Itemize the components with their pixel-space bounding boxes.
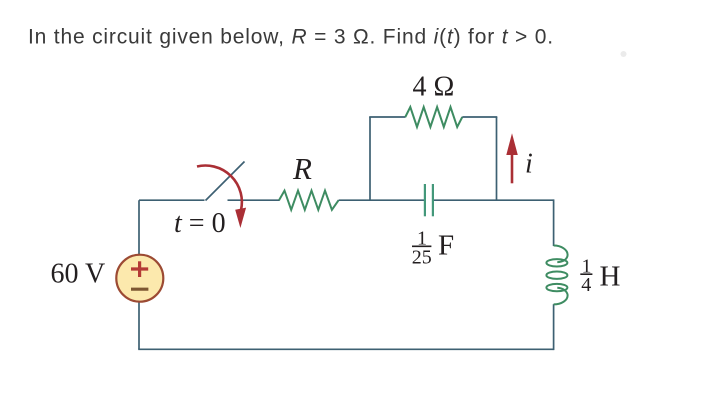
wire right vertical lower (below inductor) xyxy=(553,304,555,350)
voltage source V1 circle xyxy=(116,255,163,302)
resistor 4 ohm zigzag xyxy=(405,107,462,127)
label 1/4 H xyxy=(580,255,620,296)
minus sign xyxy=(131,288,148,291)
svg-text:F: F xyxy=(438,230,454,262)
faint smudge artifact xyxy=(621,51,627,57)
svg-text:25: 25 xyxy=(412,247,432,269)
svg-text:i: i xyxy=(525,148,533,179)
resistor R zigzag xyxy=(279,191,339,210)
switch blade xyxy=(206,162,245,201)
plus sign xyxy=(131,261,148,277)
svg-text:4 Ω: 4 Ω xyxy=(413,72,455,103)
current arrow i (red) xyxy=(506,133,518,183)
wire left vertical xyxy=(138,200,140,349)
capacitor left plate xyxy=(424,184,426,216)
wire bottom xyxy=(138,348,553,350)
wire top rail left of switch xyxy=(139,199,205,201)
inductor L coil xyxy=(546,246,567,305)
wire top branch right segment xyxy=(462,116,497,118)
svg-text:R: R xyxy=(292,151,312,186)
svg-text:In the circuit given below, R: In the circuit given below, R = 3 Ω. Fin… xyxy=(28,25,554,48)
label 1/25 F xyxy=(412,228,454,269)
wire top branch left segment xyxy=(369,116,405,118)
svg-text:4: 4 xyxy=(581,274,591,296)
title text xyxy=(28,25,554,48)
svg-text:60 V: 60 V xyxy=(51,259,106,290)
wire 4-ohm branch right vertical xyxy=(496,117,498,201)
wire right vertical upper (above inductor) xyxy=(553,199,555,246)
wire from capacitor to right edge xyxy=(434,199,554,201)
svg-text:H: H xyxy=(600,261,621,293)
wire from R to capacitor xyxy=(339,199,424,201)
switch arrow head (red) xyxy=(235,208,246,228)
switch closing arc (red) xyxy=(197,166,242,210)
svg-text:t = 0: t = 0 xyxy=(174,208,226,239)
capacitor right plate xyxy=(432,184,434,216)
wire between switch and resistor R xyxy=(228,199,280,201)
wire 4-ohm branch left vertical xyxy=(369,117,371,201)
